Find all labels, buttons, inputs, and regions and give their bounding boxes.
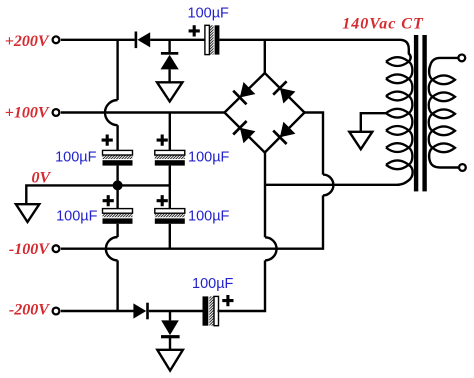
svg-text:100µF: 100µF — [55, 150, 97, 166]
bridge diode DB4 — [273, 122, 295, 144]
wire C2 down — [116, 224, 118, 237]
wire D6 to ground — [169, 338, 171, 350]
capacitor C4 — [155, 209, 185, 224]
wire chain1 top — [116, 40, 118, 100]
wire -200V rail left — [61, 310, 135, 312]
wire hop over transformer line — [323, 175, 333, 196]
plus sign C1 — [102, 135, 113, 146]
wire D5 to C5 — [149, 310, 203, 312]
svg-text:100µF: 100µF — [188, 6, 230, 22]
wire C0 to transformer — [219, 39, 399, 41]
capacitor C5 — [203, 296, 219, 325]
wire 0V line — [26, 185, 170, 204]
wire C5 to corner — [218, 260, 266, 311]
wire hop to -200V rail — [116, 260, 118, 311]
diode D6 — [161, 320, 180, 338]
svg-text:100µF: 100µF — [192, 276, 234, 292]
bridge frame — [225, 73, 305, 153]
wire bridge top stub — [264, 40, 266, 73]
svg-text:0V: 0V — [32, 169, 52, 186]
terminal -100V — [53, 245, 60, 252]
capacitor C3 — [155, 150, 185, 165]
bridge diode DB3 — [233, 121, 255, 143]
ground G1 — [157, 82, 182, 101]
ground G2 — [157, 350, 183, 371]
wire bridge bottom to transformer tee — [264, 153, 266, 238]
junction dot — [113, 180, 123, 190]
capacitor C1 — [103, 150, 133, 165]
wire +100V rail — [61, 111, 225, 113]
wire D2 to ground — [168, 69, 170, 82]
plus sign C2 — [103, 195, 114, 206]
wire center tap — [361, 113, 386, 132]
wire transformer bottom line — [265, 184, 400, 186]
wire D1 to C0 — [150, 39, 205, 41]
wire C1 to node0 — [116, 166, 118, 209]
svg-text:-100V: -100V — [9, 241, 50, 258]
wire hop to C1 — [116, 125, 118, 150]
transformer secondary lead top — [429, 58, 458, 80]
wire hop over -100V — [106, 237, 118, 260]
svg-text:+100V: +100V — [5, 104, 50, 121]
diode D1 — [135, 32, 151, 49]
plus sign C5 — [222, 295, 233, 306]
diode D5 — [133, 303, 148, 320]
wire node A stub — [168, 40, 170, 52]
terminal secondary bottom — [459, 164, 466, 171]
wire to bridge right vertex — [305, 113, 324, 175]
transformer secondary winding — [429, 75, 455, 152]
diode D2 — [161, 52, 179, 69]
svg-text:100µF: 100µF — [188, 150, 230, 166]
bridge diode DB1 — [233, 82, 255, 104]
terminal secondary top — [458, 55, 465, 62]
wire +200V rail left — [61, 39, 135, 41]
plus sign C4 — [157, 195, 168, 206]
terminal -200V — [53, 308, 60, 315]
wire hop over +100V — [105, 100, 118, 125]
capacitor C0 — [205, 25, 220, 54]
svg-text:140Vac CT: 140Vac CT — [342, 15, 424, 32]
wire chain2 top — [169, 113, 171, 151]
plus sign C3 — [157, 135, 168, 146]
wire node B stub — [169, 311, 171, 320]
terminal +200V — [53, 36, 60, 43]
svg-text:100µF: 100µF — [56, 209, 98, 225]
svg-text:+200V: +200V — [5, 33, 50, 50]
ground G0 — [16, 204, 39, 222]
core bar left — [414, 35, 418, 191]
transformer primary winding — [386, 57, 412, 169]
transformer secondary lead bottom — [429, 148, 458, 168]
svg-text:100µF: 100µF — [188, 209, 230, 225]
terminal +100V — [53, 109, 60, 116]
wire C4 to -100V rail — [169, 224, 171, 249]
bridge diode DB2 — [273, 81, 295, 103]
ground G3 — [349, 132, 372, 149]
transformer primary lead top — [400, 40, 411, 62]
transformer primary lead bottom — [397, 165, 413, 185]
wire C3 to C4 — [169, 166, 171, 209]
core bar right — [422, 35, 426, 191]
svg-text:-200V: -200V — [9, 302, 50, 319]
wire -100V rail — [61, 195, 323, 248]
plus sign C0 — [189, 25, 200, 36]
capacitor C2 — [103, 209, 133, 224]
wire hop over -100V right — [265, 237, 277, 260]
